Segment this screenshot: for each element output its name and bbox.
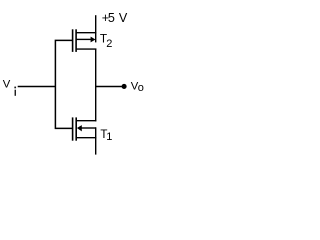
wire: T1 source/bulk down lead <box>95 127 97 154</box>
node: Vo junction dot <box>122 84 127 89</box>
label T1 <box>100 128 112 143</box>
wire: output lead to Vo <box>96 86 123 88</box>
svg-text:5: 5 <box>108 11 115 25</box>
transistor T2 (PMOS) <box>73 29 97 52</box>
label T2 <box>100 32 113 51</box>
svg-text:V: V <box>119 11 128 25</box>
wire: input lead from Vi to gate bus <box>18 86 56 88</box>
wire: T2 drain to T1 drain (output node) <box>95 49 97 122</box>
input terminal label Vi <box>3 79 16 96</box>
svg-text:1: 1 <box>106 131 112 143</box>
wire: +5 V supply lead <box>95 15 97 42</box>
transistor T1 (NMOS) <box>73 117 97 140</box>
wire: gate bus connecting T2 gate and T1 gate <box>55 40 72 128</box>
svg-text:V: V <box>3 79 11 91</box>
svg-text:2: 2 <box>106 38 112 50</box>
label Vo <box>131 81 144 94</box>
label +5 V <box>102 11 128 25</box>
svg-text:o: o <box>138 82 144 94</box>
